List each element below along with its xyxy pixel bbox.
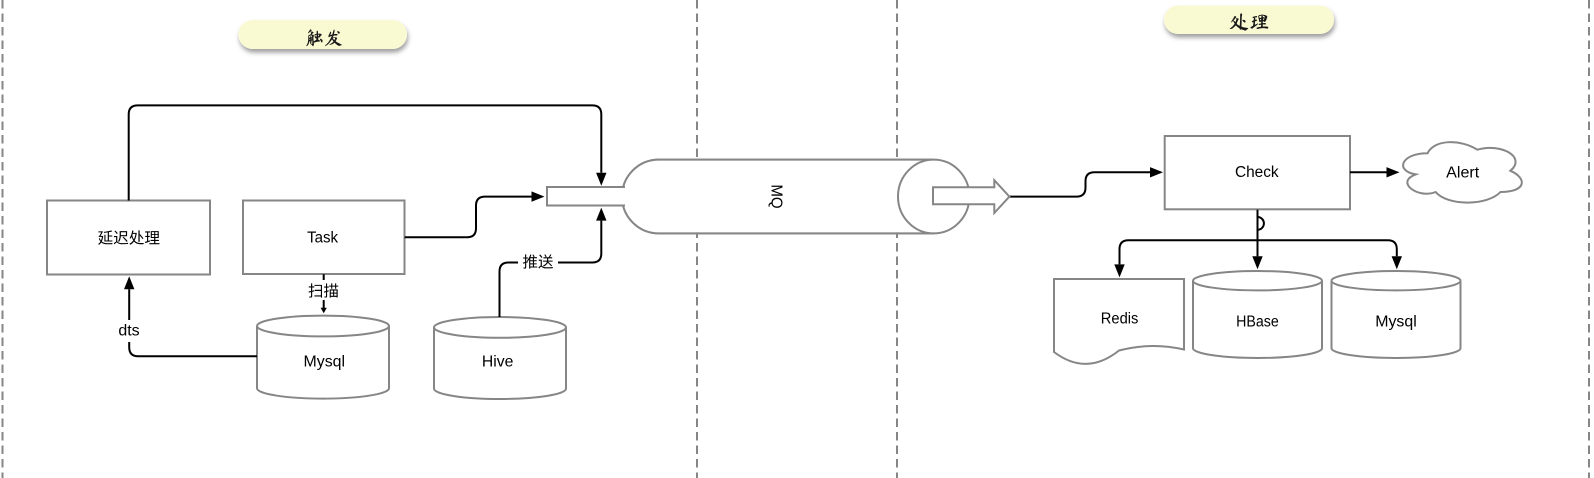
svg-text:Mysql: Mysql	[304, 354, 346, 371]
svg-text:MQ: MQ	[767, 184, 784, 208]
svg-text:Check: Check	[1235, 164, 1279, 181]
svg-text:Redis: Redis	[1101, 310, 1139, 327]
svg-text:HBase: HBase	[1236, 313, 1279, 330]
svg-text:Alert: Alert	[1446, 165, 1480, 182]
svg-text:Task: Task	[307, 230, 338, 247]
svg-text:Mysql: Mysql	[1375, 313, 1417, 330]
svg-text:Hive: Hive	[482, 354, 514, 371]
svg-text:dts: dts	[118, 323, 140, 340]
